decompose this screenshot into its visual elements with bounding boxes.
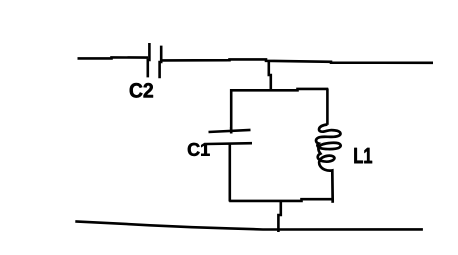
right plate [160, 46, 162, 79]
wire tank left lower [229, 144, 232, 202]
wire top-right segment [163, 59, 434, 62]
top plate stub overlap [230, 127, 233, 134]
wire tank top [231, 89, 328, 90]
inductor L1 [316, 125, 341, 203]
label L1 [354, 148, 372, 163]
label C1 [188, 143, 210, 156]
left plate [148, 43, 150, 77]
wire bottom rail [75, 221, 423, 229]
wire tank bottom [229, 199, 332, 201]
wire top-left segment [78, 57, 149, 58]
wire stub tank bottom to lower rail [278, 201, 280, 233]
top plate [209, 130, 251, 132]
bottom plate [207, 142, 252, 145]
label C2 [130, 83, 153, 98]
capacitor C1 [207, 127, 252, 144]
capacitor C2 [148, 43, 161, 78]
wire tank right upper [326, 89, 329, 125]
wire tank left upper [230, 89, 233, 132]
wire stub from top wire to tank [269, 61, 271, 91]
